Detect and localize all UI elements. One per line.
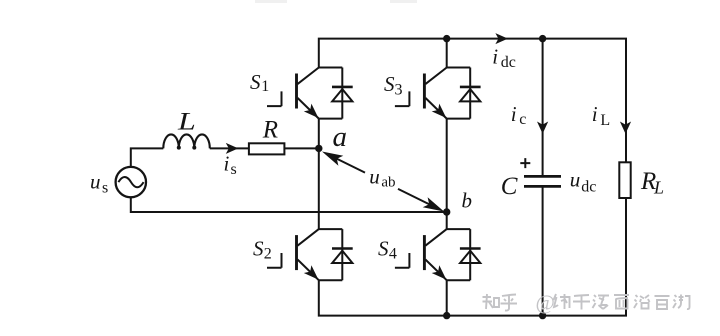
svg-text:dc: dc: [581, 179, 596, 196]
svg-text:L: L: [600, 112, 610, 129]
svg-text:@: @: [536, 291, 555, 315]
svg-text:i: i: [492, 45, 498, 69]
svg-text:S: S: [253, 236, 264, 260]
svg-text:S: S: [378, 236, 389, 260]
svg-text:R: R: [262, 117, 278, 144]
svg-text:i: i: [224, 152, 230, 176]
svg-text:L: L: [653, 178, 664, 198]
svg-text:i: i: [511, 102, 517, 126]
svg-text:c: c: [519, 111, 526, 128]
svg-text:s: s: [231, 161, 237, 178]
svg-text:S: S: [250, 70, 261, 94]
svg-text:u: u: [90, 170, 101, 194]
svg-text:S: S: [384, 72, 395, 96]
svg-text:s: s: [102, 179, 108, 196]
svg-text:C: C: [501, 173, 518, 200]
svg-text:1: 1: [261, 78, 269, 95]
svg-text:L: L: [177, 108, 196, 136]
svg-text:2: 2: [264, 246, 272, 263]
svg-text:3: 3: [395, 82, 403, 99]
svg-text:u: u: [369, 164, 380, 188]
svg-text:4: 4: [389, 246, 397, 263]
svg-text:ab: ab: [381, 174, 395, 190]
svg-text:b: b: [462, 189, 473, 213]
svg-text:i: i: [592, 102, 598, 126]
svg-text:a: a: [333, 121, 348, 153]
svg-text:u: u: [570, 168, 581, 192]
svg-text:dc: dc: [501, 54, 516, 71]
